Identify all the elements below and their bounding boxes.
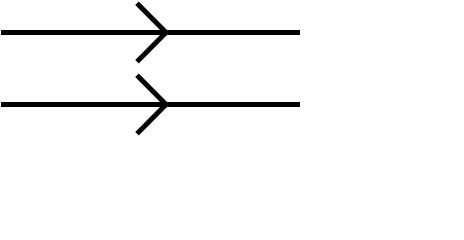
wire W2 (bottom conductor) <box>1 102 300 107</box>
wire W1 (top conductor) <box>1 30 300 35</box>
arrowhead on wire W1 (signal direction: right) <box>137 3 166 62</box>
arrowhead on wire W2 (signal direction: right) <box>137 75 166 134</box>
